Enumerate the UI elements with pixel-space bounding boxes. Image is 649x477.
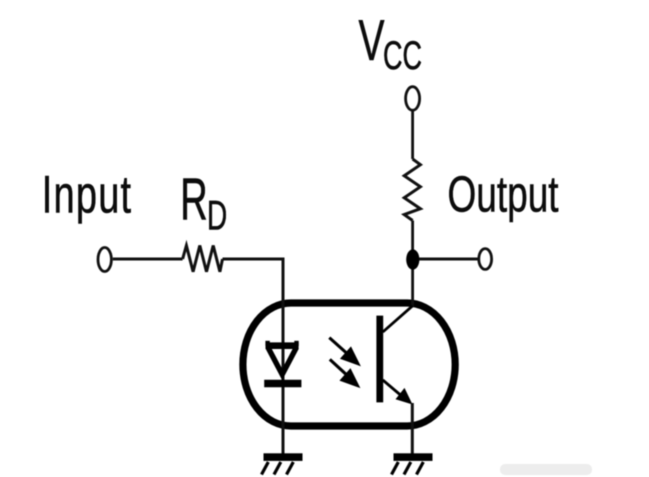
svg-text:R: R: [180, 166, 207, 233]
svg-text:V: V: [359, 10, 385, 73]
svg-text:CC: CC: [383, 34, 422, 78]
svg-text:D: D: [207, 192, 227, 239]
svg-text:Output: Output: [448, 167, 560, 223]
svg-text:Input: Input: [42, 166, 133, 224]
